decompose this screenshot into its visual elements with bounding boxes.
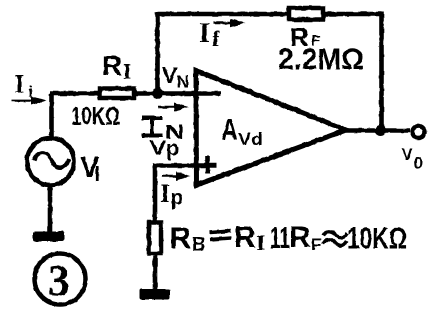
svg-text:R: R xyxy=(170,222,192,255)
svg-text:I: I xyxy=(256,231,267,255)
svg-text:R: R xyxy=(102,50,122,81)
svg-text:A: A xyxy=(221,114,238,147)
svg-text:p: p xyxy=(166,138,179,161)
wire feedback right vertical xyxy=(379,12,384,131)
current arrow Ii xyxy=(11,96,47,105)
svg-text:3: 3 xyxy=(48,256,70,305)
svg-text:l: l xyxy=(95,165,101,187)
svg-text:B: B xyxy=(192,235,206,256)
svg-text:10KΩ: 10KΩ xyxy=(347,221,407,256)
wire top feedback left segment xyxy=(158,12,288,17)
resistor RF xyxy=(289,8,323,20)
wire V1 to ground xyxy=(48,186,53,233)
wire input horizontal xyxy=(50,91,98,96)
node VN junction dot xyxy=(152,88,163,99)
wire feedback left vertical xyxy=(155,12,160,94)
svg-text:11: 11 xyxy=(270,220,290,255)
wire RI to node and inverting input stub xyxy=(136,91,221,96)
svg-text:N: N xyxy=(177,72,190,92)
wire top feedback right segment xyxy=(325,12,382,17)
node output junction dot xyxy=(375,125,386,136)
svg-text:I: I xyxy=(123,60,131,84)
op-amp plus sign vertical stroke xyxy=(205,156,210,174)
svg-text:V: V xyxy=(402,146,413,164)
wire output xyxy=(346,128,410,133)
wire non-inverting input stub xyxy=(153,163,217,168)
svg-text:p: p xyxy=(171,187,184,210)
svg-text:Vd: Vd xyxy=(238,129,263,149)
svg-text:R: R xyxy=(234,221,256,254)
current arrow If xyxy=(213,19,246,27)
label IN xyxy=(142,118,163,136)
svg-text:I: I xyxy=(160,179,170,208)
wire RB to ground xyxy=(153,256,158,291)
figure number 3 xyxy=(35,254,86,306)
equation RB = RI || RF ≈ 10KΩ xyxy=(170,220,408,256)
ground (under RB) xyxy=(140,289,171,300)
svg-text:I: I xyxy=(199,18,210,49)
svg-text:R: R xyxy=(289,221,311,254)
svg-text:10KΩ: 10KΩ xyxy=(71,103,120,131)
wire input corner vertical xyxy=(49,94,54,139)
current arrow IP xyxy=(162,172,191,181)
svg-text:2.2MΩ: 2.2MΩ xyxy=(278,43,364,76)
current arrow IN xyxy=(158,103,189,112)
svg-text:V: V xyxy=(150,138,168,160)
svg-text:i: i xyxy=(29,84,34,101)
ground (under V1) xyxy=(33,232,64,242)
resistor RB xyxy=(149,223,161,254)
op-amp U1 xyxy=(196,71,346,186)
output terminal xyxy=(413,126,425,138)
wire VP corner vertical to RB xyxy=(153,166,158,222)
svg-text:F: F xyxy=(311,235,321,254)
svg-text:I: I xyxy=(15,70,25,99)
svg-text:0: 0 xyxy=(414,155,423,173)
source V1 xyxy=(27,138,74,185)
svg-text:f: f xyxy=(212,26,220,51)
resistor RI xyxy=(100,89,134,99)
